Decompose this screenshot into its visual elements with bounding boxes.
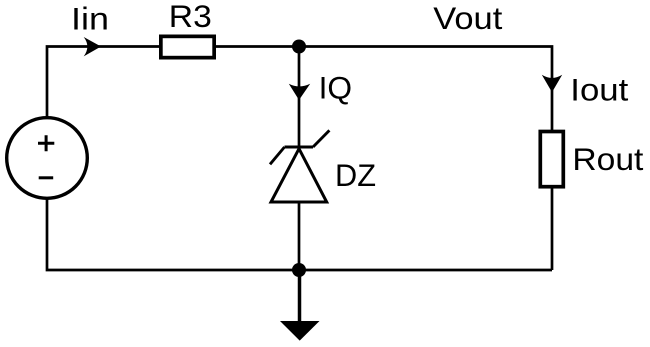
current arrow IQ: [289, 84, 310, 100]
svg-text:DZ: DZ: [335, 157, 376, 193]
svg-text:Rout: Rout: [572, 141, 643, 177]
voltage source V1: [7, 118, 88, 199]
svg-text:IQ: IQ: [319, 69, 353, 105]
wire from R3 right to node: [216, 45, 299, 48]
bottom wire: [47, 199, 552, 270]
wire zener branch upper: [298, 47, 301, 148]
wire from Rout bottom to bottom-right corner: [551, 188, 554, 271]
current arrow Iout: [542, 75, 562, 93]
wire from source top to R3 left: [47, 47, 160, 118]
wire from node along top to right corner down to Rout: [299, 47, 552, 132]
current arrow Iin: [84, 37, 101, 56]
resistor Rout: [540, 132, 563, 187]
resistor R3: [161, 36, 214, 57]
svg-text:R3: R3: [169, 0, 212, 34]
zener diode DZ: [270, 130, 329, 202]
svg-text:Vout: Vout: [433, 0, 502, 36]
wire zener bottom to bottom node: [298, 202, 301, 270]
node Vout junction: [292, 40, 306, 54]
ground: [280, 270, 320, 341]
svg-text:Iout: Iout: [570, 72, 628, 108]
svg-text:Iin: Iin: [71, 1, 109, 37]
bottom node junction: [292, 263, 306, 277]
